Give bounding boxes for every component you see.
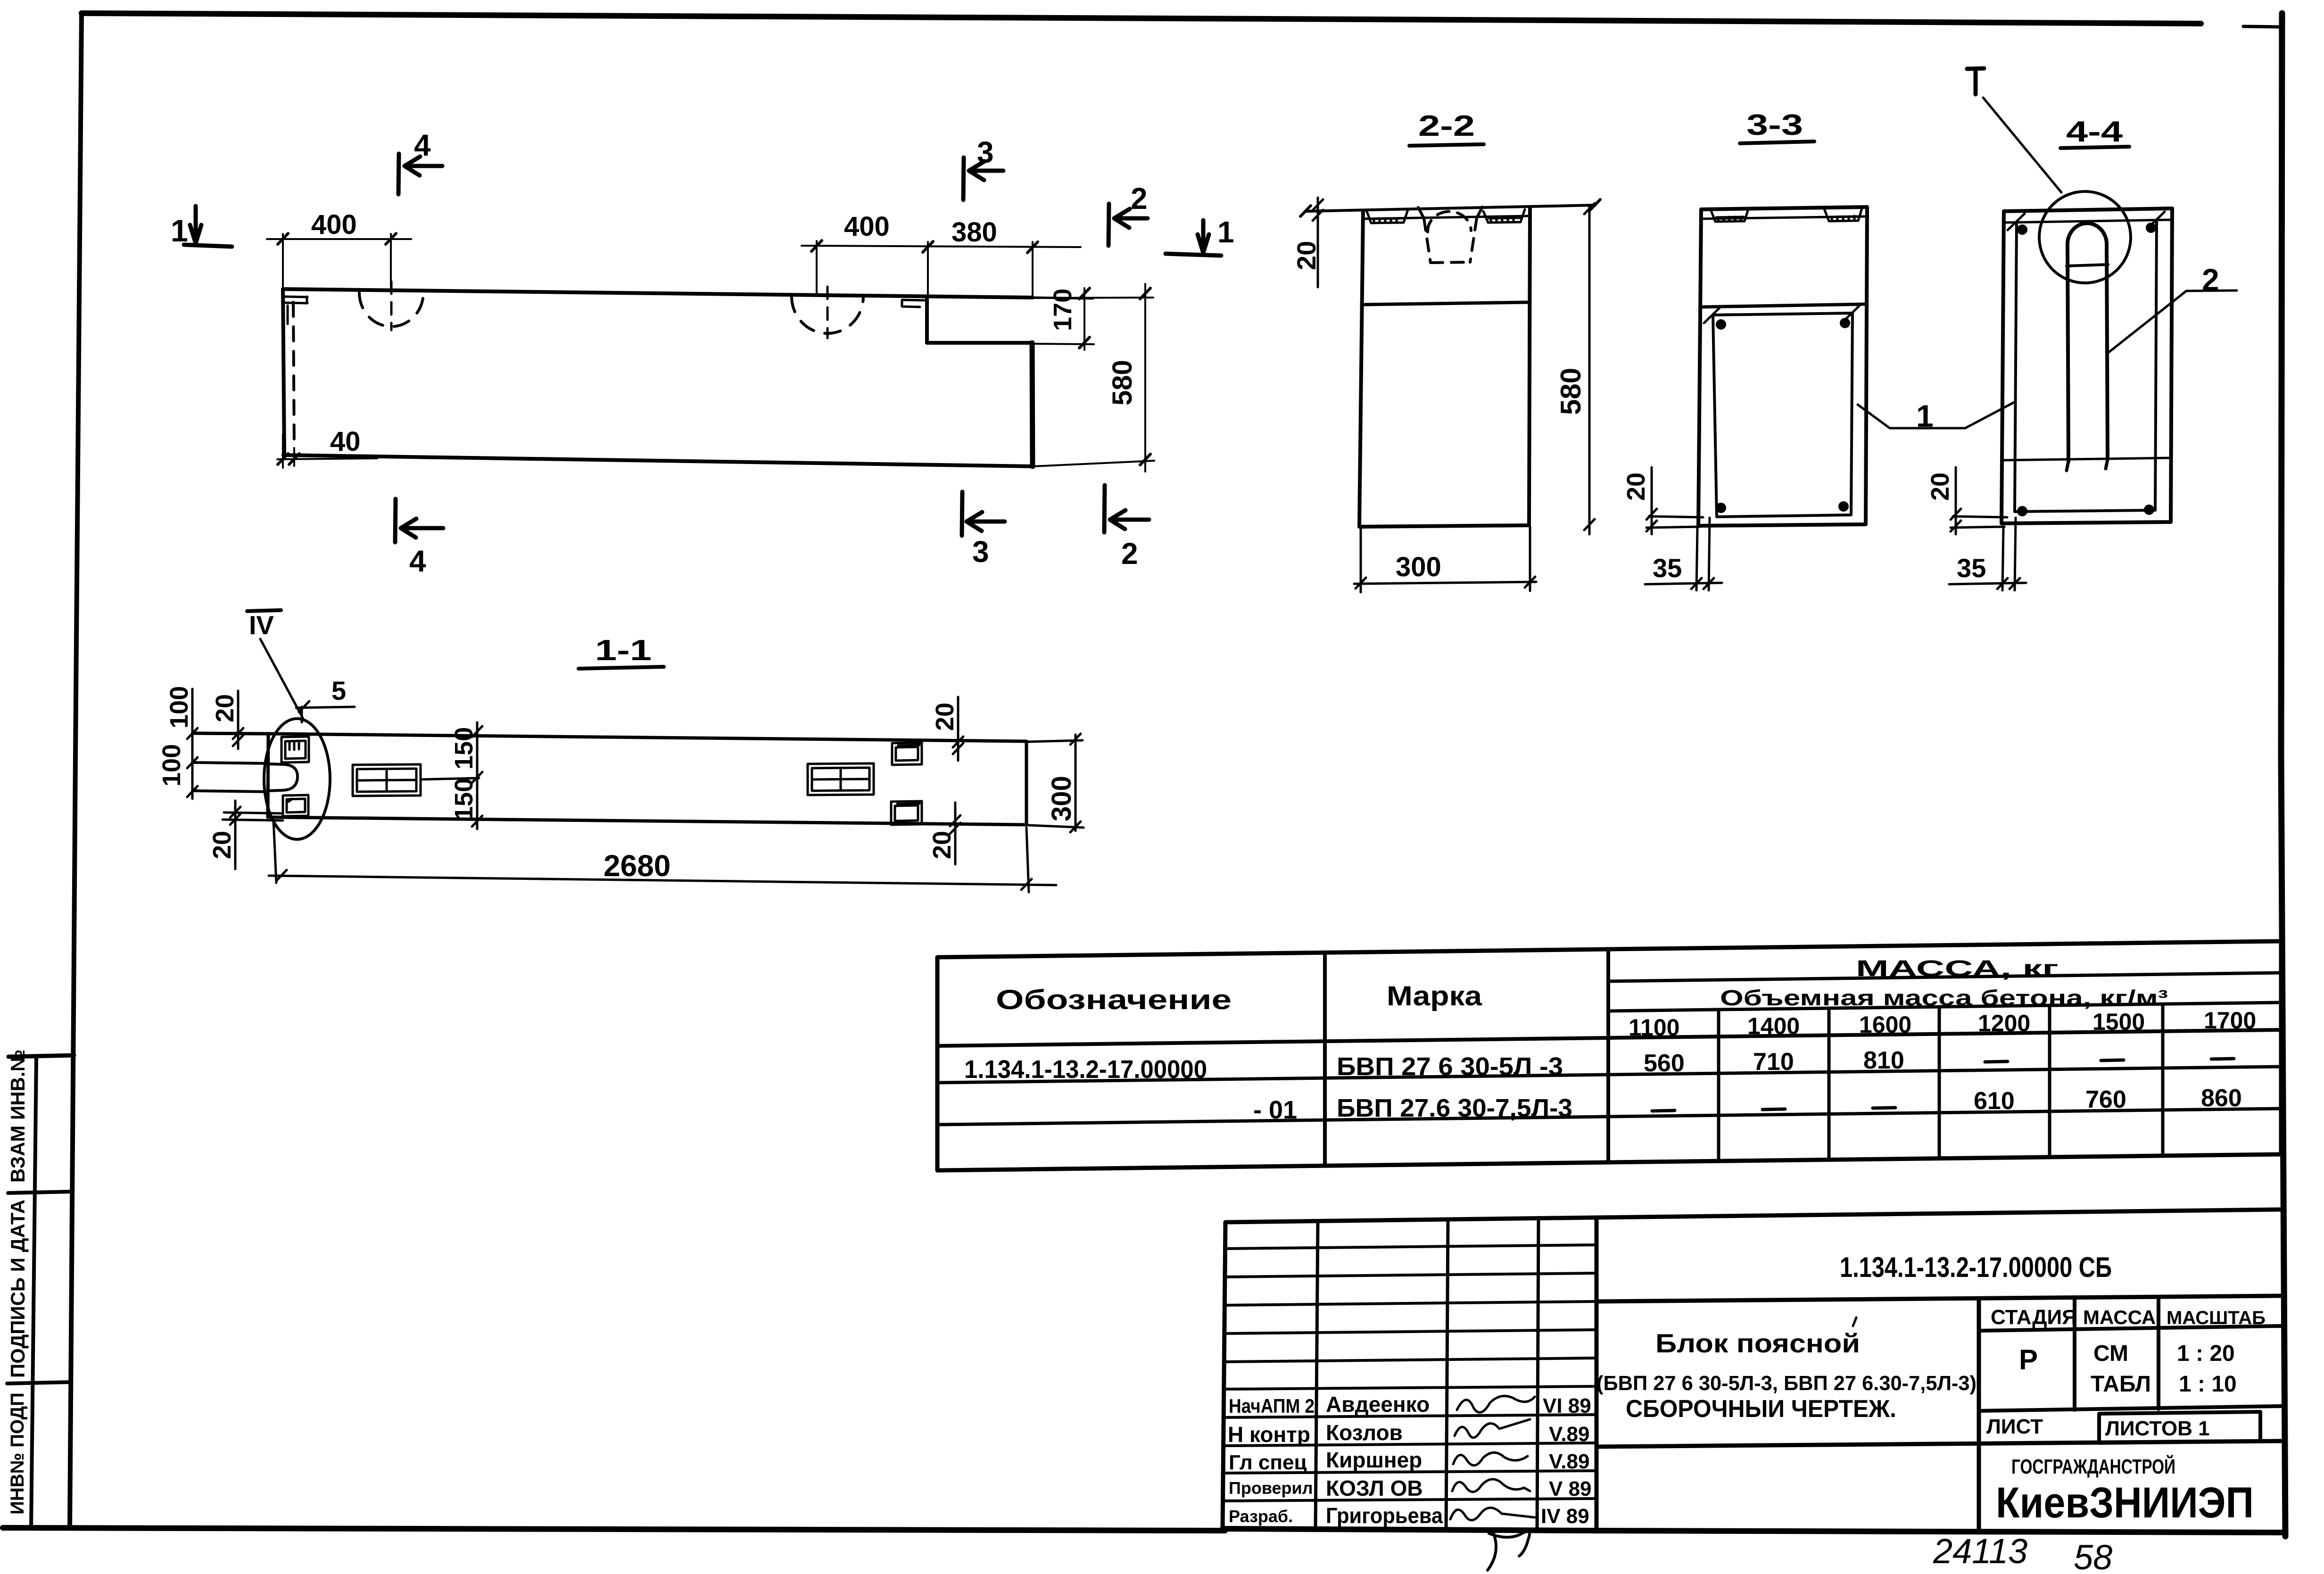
svg-text:БВП 27.6 30-7,5Л-3: БВП 27.6 30-7,5Л-3 [1337,1094,1572,1122]
dim 300 right [1028,734,1083,832]
svg-text:760: 760 [2085,1086,2126,1113]
dim 5 [296,701,355,722]
svg-text:VI 89: VI 89 [1543,1394,1591,1417]
svg-text:150: 150 [450,727,478,770]
section 4-4 rebar dots [2017,223,2156,516]
section 3-3 dim 35 [1645,518,1722,590]
table row2 dash2 [1762,1109,1785,1110]
beam plan left edge [283,289,284,455]
svg-text:1100: 1100 [1629,1014,1679,1041]
signature squiggle 1 [1457,1396,1535,1412]
table row1 dash2 [2101,1060,2124,1060]
svg-text:20: 20 [931,703,959,731]
svg-text:24113: 24113 [1933,1532,2027,1571]
svg-text:Р: Р [2019,1344,2038,1375]
dim 400 left ticks [278,233,396,244]
section 3-3 notch right [1824,208,1862,221]
section 3-3 outline [1698,207,1867,526]
svg-text:МАССА, кг: МАССА, кг [1856,956,2059,981]
svg-text:58: 58 [2074,1538,2112,1574]
table column divider 5 [1938,1007,1941,1159]
plate right pair [808,763,874,795]
lifting loop chord [2067,265,2108,266]
svg-text:560: 560 [1644,1050,1685,1077]
frame top right tick [2243,26,2282,27]
stamp grid row b [1224,1273,1596,1277]
svg-text:20: 20 [1291,241,1321,270]
svg-text:100: 100 [157,744,186,787]
svg-text:Марка: Марка [1387,981,1482,1011]
plate top left [281,737,309,762]
svg-text:IV 89: IV 89 [1541,1505,1589,1528]
section 3-3 label underline [1740,141,1814,143]
svg-text:1 : 10: 1 : 10 [2179,1372,2237,1397]
stamp grid column 2 [1446,1219,1448,1531]
svg-text:Обозначение: Обозначение [996,985,1232,1015]
svg-text:580: 580 [1555,368,1587,415]
svg-text:40: 40 [330,426,361,457]
section 2-2 dim 580 [1584,203,1595,534]
dim 580 line [1034,284,1154,472]
margin cell left line [31,1057,36,1528]
stadia col divider 1 [2073,1298,2076,1410]
hidden arc 2 [792,296,863,333]
svg-text:Киршнер: Киршнер [1326,1448,1422,1472]
svg-text:Объемная масса бетона, кг/м³: Объемная масса бетона, кг/м³ [1720,986,2168,1010]
table line row2 bottom [937,1109,2281,1125]
svg-text:Разраб.: Разраб. [1229,1507,1293,1526]
signature squiggle 2 [1455,1419,1530,1438]
title divider under number [1596,1296,2281,1301]
margin cell divider 1 [8,1192,73,1193]
svg-text:ЛИСТ: ЛИСТ [1986,1415,2043,1438]
section 4-4 dim 35 [1949,518,2026,590]
section 2-2 slab bottom line [1363,216,1530,219]
beam 1-1 top edge [193,733,1026,741]
dim chain 100 100 [187,689,270,799]
svg-text:БВП 27 6 30-5Л -3: БВП 27 6 30-5Л -3 [1337,1052,1563,1081]
detail IV leader [260,639,304,721]
section 4-4 dim 20 [1951,467,2007,534]
table column divider 7 [2161,1004,2165,1156]
svg-text:СМ: СМ [2093,1341,2128,1366]
svg-text:610: 610 [1974,1087,2015,1115]
beam plan hidden dashed line left [293,302,294,449]
title vertical center-right [1977,1299,1981,1533]
svg-text:4: 4 [414,128,431,162]
svg-text:20: 20 [928,831,956,859]
list row divider [1596,1441,2281,1447]
detail circle [2039,191,2131,283]
section marker 3 bottom [962,492,1005,536]
svg-text:IV: IV [249,610,274,640]
section marker 1 right [1166,220,1221,256]
svg-text:2: 2 [2202,262,2219,297]
tongue bottom line [192,791,268,792]
section 4-4 label underline [2060,147,2129,148]
svg-text:Гл спец: Гл спец [1229,1451,1307,1474]
table line row1 bottom [937,1067,2281,1083]
table outer border [937,941,2281,1170]
detail IV circle [264,719,330,839]
svg-text:5: 5 [331,676,346,705]
stamp grid row h [1223,1443,1596,1446]
svg-text:НачАПМ 2: НачАПМ 2 [1229,1395,1315,1417]
dim 580 ticks [1140,288,1150,465]
svg-text:1600: 1600 [1859,1011,1911,1038]
section 3-3 slab line [1701,216,1867,219]
svg-text:3-3: 3-3 [1746,109,1803,141]
section 4-4 cage left [2015,222,2017,512]
section 3-3 stirrup top ticks [1704,305,1860,323]
title block outer [1223,1209,2281,1529]
svg-text:МАССА: МАССА [2083,1306,2156,1328]
svg-text:2: 2 [1131,182,1148,215]
section 2-2 dim 300 [1354,527,1536,592]
beam plan top edge extension right [1033,298,1093,298]
stamp grid row g [1224,1415,1596,1417]
svg-text:2: 2 [1121,537,1138,571]
stamp grid row i [1223,1471,1596,1473]
svg-text:580: 580 [1107,360,1138,406]
svg-text:V 89: V 89 [1549,1477,1592,1500]
svg-text:(БВП 27 6 30-5Л-3, БВП 27 6.30: (БВП 27 6 30-5Л-3, БВП 27 6.30-7,5Л-3) [1596,1372,1977,1395]
hidden arc 2 centerline [827,287,829,338]
stamp grid column 3 [1537,1218,1538,1531]
dim 40 line [277,434,377,468]
section marker 2 bottom [1104,485,1149,532]
table column divider 3 [1717,1010,1720,1161]
section 3-3 rebar dots [1716,318,1850,513]
stamp grid column 1 [1315,1221,1318,1530]
svg-text:1400: 1400 [1747,1013,1800,1039]
section 2-2 dim 20 [1313,198,1323,287]
table row2 dash1 [1652,1110,1675,1111]
svg-text:1200: 1200 [1978,1010,2030,1036]
svg-text:1500: 1500 [2092,1009,2145,1035]
dim 20 top left [233,691,243,749]
stamp grid row e [1224,1358,1596,1362]
corner plate mark at step [902,300,926,307]
section 3-3 inner line [1700,304,1866,307]
svg-text:ГОСГРАЖДАНСТРОЙ: ГОСГРАЖДАНСТРОЙ [2011,1454,2175,1478]
stamp grid right edge [1595,1218,1599,1532]
svg-text:20: 20 [208,831,236,859]
table line header bottom [937,1030,2281,1046]
svg-text:400: 400 [311,209,357,240]
svg-text:300: 300 [1396,552,1441,582]
svg-text:СТАДИЯ: СТАДИЯ [1991,1306,2077,1329]
table row1 dash3 [2211,1059,2234,1059]
svg-text:300: 300 [1046,776,1077,821]
lifting loop hooks [2067,459,2108,471]
frame right border [2281,13,2285,1536]
svg-text:380: 380 [951,217,997,248]
table column divider 6 [2048,1005,2051,1157]
section 3-3 stirrup [1713,313,1853,517]
dim 20 top right [953,697,963,761]
listov box [2099,1412,2260,1443]
svg-text:810: 810 [1863,1047,1904,1074]
section marker 1 top left [184,206,232,247]
section 4-4 corner tick left [2008,214,2025,230]
svg-text:КиевЗНИИЭП: КиевЗНИИЭП [1996,1479,2254,1527]
section marker 3 top [963,157,1003,200]
leader 1 [1858,402,2014,428]
svg-text:20: 20 [211,694,239,722]
frame left border [70,13,82,1528]
svg-text:V.89: V.89 [1549,1423,1589,1446]
signature squiggle 3 [1453,1452,1528,1465]
section 4-4 lower line [2003,458,2171,460]
title block bottom [1223,1529,2284,1533]
svg-text:2680: 2680 [604,849,670,883]
signature squiggle 5 [1450,1508,1535,1520]
dim 40 ticks [278,454,299,464]
detail marker I leader [1983,98,2061,192]
beam plan step vertical [925,297,929,343]
svg-text:100: 100 [165,686,193,729]
svg-text:КОЗЛ ОВ: КОЗЛ ОВ [1326,1476,1423,1500]
table column divider 4 [1828,1008,1831,1160]
section 4-4 slab line [2004,220,2172,223]
dim 400-380 ticks [811,240,1038,253]
svg-text:860: 860 [2201,1085,2242,1112]
plate middle pair [353,764,421,796]
dim 400-380 right line [802,241,1081,298]
table column divider 2 [1606,949,1610,1162]
beam 1-1 bottom edge [268,817,1026,825]
stamp grid row a [1225,1245,1596,1249]
beam 1-1 right edge [1025,741,1028,825]
frame top border [82,13,2201,24]
frame bottom border [3,1528,1225,1531]
section 1-1 label underline [579,667,664,669]
svg-text:710: 710 [1753,1048,1794,1076]
svg-text:1: 1 [1217,215,1234,249]
table column divider 1 [1323,953,1327,1166]
svg-text:Авдеенко: Авдеенко [1326,1392,1430,1417]
svg-text:2-2: 2-2 [1418,110,1475,142]
svg-text:ПОДПИСЬ И ДАТА: ПОДПИСЬ И ДАТА [7,1200,29,1378]
svg-text:20: 20 [1622,472,1650,501]
svg-text:3: 3 [972,535,989,569]
beam plan top edge [283,289,1033,298]
section 2-2 label underline [1409,144,1484,146]
svg-text:- 01: - 01 [1253,1096,1297,1124]
section 2-2 top slab end ticks [1300,199,1600,216]
svg-text:150: 150 [450,778,478,820]
svg-text:ВЗАМ ИНВ.№: ВЗАМ ИНВ.№ [7,1050,29,1183]
beam plan bottom edge [283,455,1033,466]
svg-text:35: 35 [1957,553,1986,583]
detail marker I [1967,68,1984,94]
svg-text:170: 170 [1049,289,1077,331]
stadia col divider 2 [2157,1297,2160,1409]
dim 20 bottom right [950,803,960,864]
svg-text:20: 20 [1926,472,1954,501]
leader 2 [2108,290,2237,353]
svg-text:V.89: V.89 [1549,1450,1589,1473]
stamp grid row d [1224,1330,1596,1334]
margin cell top cap [8,1055,74,1057]
dim 400 left line [267,234,411,289]
values row underline [1979,1406,2281,1411]
section 2-2 embedded plate right [1483,209,1525,223]
table row2 dash3 [1873,1108,1895,1108]
detail IV overline [247,610,281,611]
stadia header underline [1979,1326,2281,1331]
svg-text:Блок поясной: Блок поясной [1655,1328,1860,1358]
dim chain 150 150 [421,722,482,829]
plate top right [892,743,922,765]
svg-text:1: 1 [1916,398,1934,433]
section 3-3 notch left [1711,209,1748,222]
section 4-4 corner tick right [2148,212,2165,228]
plate bottom left [283,795,308,816]
stamp grid row f [1224,1386,1596,1389]
section 2-2 inner line [1363,302,1529,305]
svg-text:1.134.1-13.2-17.00000: 1.134.1-13.2-17.00000 [964,1055,1207,1084]
lifting loop [2068,223,2108,461]
dim 2680 [269,820,1056,892]
dim 170 ticks [1079,288,1090,348]
svg-text:3: 3 [977,135,994,169]
svg-text:4: 4 [409,544,426,578]
svg-text:1.134.1-13.2-17.00000 СБ: 1.134.1-13.2-17.00000 СБ [1840,1251,2112,1283]
svg-text:МАСШТАБ: МАСШТАБ [2167,1308,2266,1328]
hidden arc 1 [359,292,423,326]
table line volume bottom [1608,1002,2281,1011]
section 2-2 outline [1359,208,1530,527]
svg-text:4-4: 4-4 [2066,116,2123,148]
corner plate mark top left [285,297,307,324]
svg-text:ТАБЛ: ТАБЛ [2091,1372,2151,1397]
section 4-4 outline [2001,208,2172,523]
section marker 2 top [1108,204,1148,246]
svg-text:1-1: 1-1 [595,634,652,667]
table row1 dash1 [1985,1061,2008,1062]
table line massa bottom [1608,973,2281,981]
svg-text:Проверил: Проверил [1229,1478,1313,1498]
hidden arc 1 centerline [390,282,393,330]
stamp grid row c [1224,1301,1596,1305]
stamp grid row j [1223,1499,1596,1501]
section marker 4 bottom [395,499,443,542]
svg-text:1 : 20: 1 : 20 [2177,1341,2235,1366]
beam 1-1 left edge [268,734,268,817]
beam plan right end edge [1032,343,1033,466]
dim 170 line [1034,288,1094,350]
svg-text:1700: 1700 [2204,1007,2256,1034]
svg-text:400: 400 [844,211,890,242]
signature flourish tail [1488,1530,1530,1570]
section 4-4 cage right [2155,220,2157,510]
section 3-3 dim 20 [1646,467,1703,534]
svg-text:Козлов: Козлов [1326,1420,1403,1445]
margin cell divider 2 [7,1382,71,1383]
tongue bulb [268,764,298,791]
svg-text:Григорьева: Григорьева [1326,1503,1443,1528]
section 2-2 top slab line [1306,205,1595,211]
svg-text:ИНВ№ ПОДП: ИНВ№ ПОДП [7,1392,28,1515]
section 2-2 hidden channel [1418,207,1482,218]
dim 20 bottom left [223,801,283,869]
tongue top line [192,762,268,763]
svg-text:Н контр: Н контр [1228,1422,1310,1447]
section 2-2 embedded plate left [1366,210,1408,223]
center box title accent [1853,1317,1856,1326]
svg-text:ЛИСТОВ 1: ЛИСТОВ 1 [2105,1417,2210,1440]
svg-text:1: 1 [171,213,188,248]
plate bottom right [891,801,922,825]
signature squiggle 4 [1452,1479,1530,1492]
beam plan step horizontal [927,341,1032,345]
section marker 4 top [398,154,442,194]
section 4-4 cage bottom [2015,510,2155,512]
svg-text:СБОРОЧНЫИ ЧЕРТЕЖ.: СБОРОЧНЫИ ЧЕРТЕЖ. [1626,1395,1896,1423]
svg-text:35: 35 [1653,553,1682,583]
